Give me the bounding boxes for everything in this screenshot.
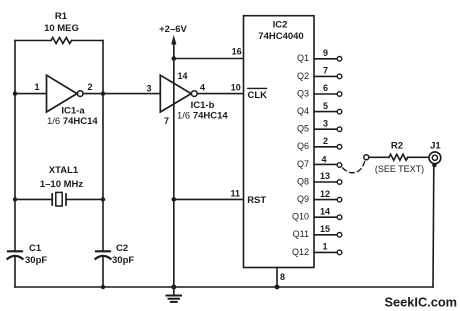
node RST junction <box>172 197 177 202</box>
connector J1 <box>429 140 441 167</box>
pin CLK label <box>248 88 268 100</box>
svg-text:C2: C2 <box>116 243 128 254</box>
node IC1-a input junction <box>13 91 17 95</box>
node ground rail junction <box>171 285 176 290</box>
svg-text:1/6 74HC14: 1/6 74HC14 <box>47 116 98 127</box>
svg-text:3: 3 <box>146 84 151 94</box>
svg-text:6: 6 <box>323 83 328 93</box>
pin Q12 <box>292 242 342 257</box>
svg-text:IC1-a: IC1-a <box>61 106 85 117</box>
svg-text:4: 4 <box>200 83 205 93</box>
node output junction <box>101 91 105 95</box>
resistor R2 <box>375 140 424 174</box>
node C2 rail junction <box>101 285 105 289</box>
svg-text:12: 12 <box>320 189 330 199</box>
pin Q1 <box>297 48 342 63</box>
svg-text:15: 15 <box>320 224 330 234</box>
svg-text:RST: RST <box>247 195 266 206</box>
pin Q2 <box>297 66 342 81</box>
wire top feedback loop left segment <box>15 40 51 42</box>
svg-text:Q2: Q2 <box>297 71 309 81</box>
svg-text:J1: J1 <box>430 140 441 151</box>
svg-text:7: 7 <box>164 116 169 126</box>
svg-text:CLK: CLK <box>248 90 268 101</box>
op-amp U1 inverter IC1-a <box>34 75 98 127</box>
svg-text:1: 1 <box>322 242 327 252</box>
svg-text:4: 4 <box>321 154 326 164</box>
pin Q7 <box>297 154 342 169</box>
resistor R1 <box>44 11 79 44</box>
node pin 8 rail junction <box>275 285 280 290</box>
svg-text:11: 11 <box>231 189 241 199</box>
svg-text:10: 10 <box>231 82 241 92</box>
wire right vertical lower <box>102 257 104 287</box>
svg-text:Q9: Q9 <box>297 194 309 204</box>
svg-text:+2–6V: +2–6V <box>159 24 187 35</box>
node crystal left junction <box>13 197 17 201</box>
pin Q3 <box>297 83 342 98</box>
wire pin 8 to ground rail <box>277 268 285 288</box>
svg-text:IC1-b: IC1-b <box>191 100 215 111</box>
svg-text:16: 16 <box>232 46 242 56</box>
svg-text:R2: R2 <box>391 140 403 151</box>
svg-text:Q11: Q11 <box>293 229 309 239</box>
svg-text:XTAL1: XTAL1 <box>49 165 79 176</box>
svg-text:1–10 MHz: 1–10 MHz <box>40 179 84 190</box>
wire tap to R2 <box>369 156 389 158</box>
wire power to pin 16 <box>174 58 244 60</box>
wire IC1-a output to IC1-b input <box>83 93 160 95</box>
svg-text:Q8: Q8 <box>297 176 309 186</box>
svg-text:SeekIC.com: SeekIC.com <box>385 295 458 310</box>
pin Q8 <box>297 171 342 186</box>
svg-text:IC2: IC2 <box>273 20 288 31</box>
svg-text:Q1: Q1 <box>297 53 309 63</box>
node power junction <box>172 56 177 61</box>
wire power vertical through IC1-b to ground <box>173 59 175 288</box>
IC U3 IC2 74HC4040 <box>244 16 315 268</box>
capacitor C2 <box>96 243 135 266</box>
svg-text:9: 9 <box>323 48 328 58</box>
power +2-6V <box>159 24 187 59</box>
node crystal right junction <box>101 197 105 201</box>
svg-text:3: 3 <box>323 118 328 128</box>
pin Q11 <box>293 224 342 239</box>
svg-text:14: 14 <box>177 71 187 81</box>
svg-text:2: 2 <box>323 136 328 146</box>
svg-text:Q12: Q12 <box>292 247 309 257</box>
pin Q5 <box>297 118 342 133</box>
svg-text:Q5: Q5 <box>297 124 309 134</box>
wire top feedback loop right segment <box>72 40 104 42</box>
svg-text:2: 2 <box>87 82 92 92</box>
svg-text:Q7: Q7 <box>297 159 309 169</box>
svg-text:74HC4040: 74HC4040 <box>258 31 303 42</box>
wire J1 to ground rail <box>432 166 435 288</box>
svg-text:Q10: Q10 <box>292 212 309 222</box>
wire IC1-a input <box>15 93 47 95</box>
svg-text:(SEE TEXT): (SEE TEXT) <box>375 164 424 174</box>
pin Q6 <box>297 136 342 151</box>
wire R2 to J1 <box>408 156 429 158</box>
node tap terminal <box>364 155 369 160</box>
svg-text:30pF: 30pF <box>112 255 134 266</box>
crystal XTAL1 <box>15 165 103 206</box>
svg-text:10 MEG: 10 MEG <box>44 23 79 34</box>
wire left vertical rail <box>14 41 16 252</box>
wire IC1-b output to CLK pin 10 <box>197 93 243 95</box>
svg-text:8: 8 <box>280 272 285 282</box>
svg-text:7: 7 <box>323 66 328 76</box>
wire right vertical of feedback loop <box>102 41 104 252</box>
pin Q4 <box>297 101 342 116</box>
pin Q10 <box>292 206 342 221</box>
wire RST to pin 11 <box>174 198 244 200</box>
wire dashed tap from Q7 <box>343 161 365 173</box>
svg-text:14: 14 <box>320 206 330 216</box>
wire bottom ground rail <box>15 286 433 288</box>
wire left vertical rail lower <box>14 257 16 287</box>
ground <box>167 287 182 302</box>
svg-text:1: 1 <box>34 82 39 92</box>
op-amp U2 inverter IC1-b <box>146 71 228 126</box>
svg-text:Q6: Q6 <box>297 141 309 151</box>
svg-text:Q4: Q4 <box>297 106 309 116</box>
svg-text:C1: C1 <box>29 243 42 254</box>
svg-text:30pF: 30pF <box>25 255 47 266</box>
svg-text:5: 5 <box>323 101 328 111</box>
svg-text:R1: R1 <box>55 11 68 22</box>
svg-text:13: 13 <box>320 171 330 181</box>
pin Q9 <box>297 189 342 204</box>
svg-text:Q3: Q3 <box>297 88 309 98</box>
capacitor C1 <box>8 243 48 266</box>
svg-text:1/6 74HC14: 1/6 74HC14 <box>177 111 228 122</box>
